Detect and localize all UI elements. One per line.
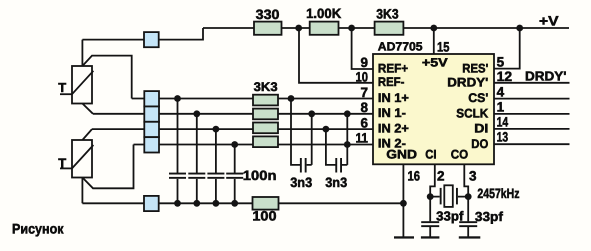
junction dots crystal <box>427 193 434 200</box>
wire T1 top diagonal to row IN1+ feeder <box>82 56 131 99</box>
svg-text:REF-: REF- <box>378 75 405 89</box>
svg-text:7: 7 <box>360 85 368 100</box>
svg-text:DO: DO <box>471 137 488 151</box>
svg-text:RES': RES' <box>462 62 488 76</box>
resistor R-IN1+ 3K3 <box>253 95 278 106</box>
wire SCLK row right <box>494 113 570 115</box>
svg-text:330: 330 <box>256 7 280 22</box>
svg-text:5: 5 <box>497 54 505 69</box>
svg-text:100n: 100n <box>243 168 277 183</box>
svg-text:DRDY': DRDY' <box>525 69 567 84</box>
svg-text:3n3: 3n3 <box>325 175 347 190</box>
capacitor C1 100n leads <box>177 99 179 204</box>
junction dots bottom rail <box>174 200 181 207</box>
svg-text:GND: GND <box>386 148 417 162</box>
svg-text:+5V: +5V <box>422 55 448 69</box>
wire pin5 RES to +V <box>494 28 520 69</box>
wire DRDY row right <box>494 82 570 84</box>
capacitor C4 100n leads <box>234 145 236 204</box>
capacitor 33pf right <box>467 197 469 237</box>
capacitor 33pf left <box>429 197 431 237</box>
svg-text:CO: CO <box>451 148 469 162</box>
thermistor T1 <box>58 66 93 104</box>
wire IN2+ row <box>92 128 373 130</box>
svg-text:DRDY': DRDY' <box>447 75 488 89</box>
capacitor C3 100n leads <box>215 129 217 203</box>
wire IN2- row <box>134 144 374 146</box>
resistor R-IN2+ 3K3 <box>253 123 278 134</box>
svg-text:IN 2+: IN 2+ <box>378 121 409 135</box>
svg-text:+V: +V <box>539 13 559 28</box>
crystal X1 <box>430 196 468 198</box>
pad top (blue) <box>144 32 159 47</box>
resistor R-IN2- 3K3 <box>253 136 278 147</box>
wire REF+ feeder <box>352 28 373 69</box>
resistor 3K3 top <box>375 22 404 35</box>
svg-text:9: 9 <box>360 55 368 70</box>
svg-text:16: 16 <box>408 169 421 184</box>
svg-text:2: 2 <box>437 169 445 184</box>
wire T2 top diagonal <box>82 129 92 140</box>
wire pin15 drop <box>433 28 435 54</box>
capacitor C4 plates <box>226 173 243 175</box>
op-amp U1 AD7705 body <box>373 54 494 164</box>
svg-text:3K3: 3K3 <box>376 6 399 21</box>
capacitor C5 3n3 left lead <box>291 99 300 165</box>
svg-text:IN 1-: IN 1- <box>378 106 406 120</box>
pin 2 wire <box>430 164 435 196</box>
resistor 100 <box>253 197 279 210</box>
svg-text:SCLK: SCLK <box>456 107 488 121</box>
wire rail left drop to pad <box>159 28 203 40</box>
capacitor C5 3n3 plates <box>300 158 302 173</box>
pad stack IN2+ <box>144 122 159 137</box>
svg-text:DI: DI <box>474 122 488 136</box>
capacitor C2 plates <box>188 173 205 175</box>
resistor 330 <box>254 22 282 35</box>
svg-text:2457kHz: 2457kHz <box>477 186 519 201</box>
svg-text:Рисунок: Рисунок <box>12 221 64 237</box>
pad stack IN2- <box>144 137 159 152</box>
svg-text:3K3: 3K3 <box>254 80 278 94</box>
capacitor C2 100n leads <box>196 114 198 204</box>
pin 16 wire <box>402 164 404 237</box>
wire T2 bottom to ground rail <box>81 178 83 204</box>
wire T1 bottom diagonal <box>82 104 93 114</box>
svg-text:CS': CS' <box>468 91 488 105</box>
wire top supply rail <box>203 27 569 29</box>
pad stack IN1+ <box>144 91 159 106</box>
svg-text:8: 8 <box>360 100 368 115</box>
svg-text:1: 1 <box>497 100 505 115</box>
svg-text:12: 12 <box>497 69 512 84</box>
svg-text:33pf: 33pf <box>475 209 504 224</box>
wire bottom ground rail <box>82 202 403 204</box>
svg-text:CI: CI <box>425 148 436 162</box>
svg-text:11: 11 <box>356 131 369 146</box>
capacitor C6 3n3 plates <box>335 158 337 173</box>
wire IN1+ row <box>132 98 373 100</box>
wire REF- feeder <box>299 28 373 83</box>
wire IN1- row <box>93 113 373 115</box>
capacitor C1 plates <box>169 173 186 175</box>
svg-text:15: 15 <box>437 39 450 54</box>
ground bar pin16 <box>394 236 414 238</box>
svg-text:3: 3 <box>469 169 477 184</box>
pad bottom (blue) <box>144 196 159 211</box>
svg-text:T: T <box>58 155 66 170</box>
pad stack IN1- <box>144 106 159 121</box>
resistor R-IN1- 3K3 <box>253 109 278 120</box>
wire T2 bottom diagonal to lower jog <box>82 145 133 189</box>
junction dots top rail <box>295 25 302 32</box>
svg-text:T: T <box>58 80 66 95</box>
capacitor C5 3n3 right lead <box>307 114 312 165</box>
svg-text:4: 4 <box>497 85 505 100</box>
wire CS row right <box>494 98 570 100</box>
svg-text:IN 1+: IN 1+ <box>378 91 409 105</box>
junction dots rows <box>174 95 181 102</box>
thermistor T2 <box>58 140 93 178</box>
svg-text:1.00K: 1.00K <box>306 6 341 21</box>
capacitor C6 3n3 right lead <box>342 114 347 165</box>
capacitor C6 3n3 left lead <box>326 129 336 165</box>
svg-text:6: 6 <box>360 115 368 130</box>
wire pad to T1 top <box>82 40 144 66</box>
pin 3 wire <box>464 164 468 196</box>
wire DO row right <box>494 143 570 145</box>
resistor 1.00K <box>310 22 339 35</box>
svg-text:3n3: 3n3 <box>290 175 312 190</box>
svg-text:AD7705: AD7705 <box>378 40 423 54</box>
svg-text:10: 10 <box>356 69 369 84</box>
svg-text:REF+: REF+ <box>378 61 408 75</box>
svg-text:100: 100 <box>252 208 276 223</box>
svg-text:14: 14 <box>497 115 509 130</box>
svg-text:13: 13 <box>497 130 509 145</box>
wire DI row right <box>494 128 570 130</box>
capacitor C3 plates <box>207 173 224 175</box>
